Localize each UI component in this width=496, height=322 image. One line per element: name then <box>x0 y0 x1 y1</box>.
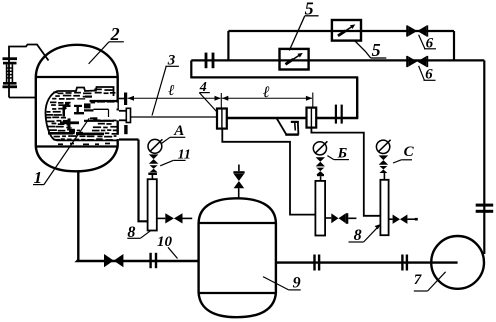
valve 6 (lower) <box>406 56 428 67</box>
svg-text:С: С <box>404 144 415 160</box>
corner joining branch back <box>453 31 455 60</box>
nozzle with flange (upper, pressure tap) <box>119 98 124 100</box>
impulse line orifice1 to pot B <box>222 129 315 215</box>
manometer B (Cyrillic Б) <box>313 142 326 155</box>
line B (lower return of loop) <box>191 76 358 78</box>
internals dark details <box>48 96 104 136</box>
branch riser to upper meter line <box>227 31 229 60</box>
main outlet nozzle to pipe 3 <box>119 108 131 122</box>
svg-text:9: 9 <box>293 275 301 292</box>
valve under manometer C <box>379 155 389 164</box>
U-turn <box>190 60 192 78</box>
pot B drain valve <box>325 217 331 219</box>
dimension line l (vessel to orifice) <box>128 97 221 99</box>
vessel 9 (storage tank) <box>199 198 276 317</box>
flange pair on pipe <box>335 105 337 124</box>
condensate pot (C leg) <box>380 180 388 235</box>
shut-off valve on feed line 10 <box>104 254 123 267</box>
dP flowmeter 5 (lower box) <box>280 49 309 70</box>
orifice device 4 (first) <box>217 109 227 129</box>
pump 7 <box>431 236 484 289</box>
flange pairs on suction line <box>313 255 315 271</box>
svg-text:10: 10 <box>157 234 173 250</box>
drain from vessel 2 <box>77 171 198 262</box>
flange pair on downcomer <box>476 204 494 207</box>
pot C drain valve <box>389 218 393 220</box>
svg-text:2: 2 <box>110 24 120 44</box>
orifice device 4 (second) <box>307 108 317 128</box>
line A (through meters) <box>191 59 484 61</box>
condensate pot 8 (second, B) <box>315 181 325 236</box>
flange pair on line A <box>205 53 208 69</box>
valve under manometer B <box>316 157 325 166</box>
pipe section 3 <box>131 116 218 118</box>
sight glass level gauge on vessel 2 <box>9 45 49 98</box>
manometer A <box>148 139 162 153</box>
condensate pot 8 (first) <box>148 179 157 230</box>
suction line from vessel 9 to pump <box>276 261 458 263</box>
svg-text:5: 5 <box>372 40 381 60</box>
thermometer pocket on pipe <box>277 119 299 135</box>
lower nozzle to condensate pot 8 <box>124 125 127 134</box>
svg-text:ℓ: ℓ <box>168 83 174 99</box>
impulse line orifice2 to pot C <box>311 128 380 216</box>
valve 6 (upper) <box>406 25 428 36</box>
vessel 2 (separator with dome) <box>36 45 118 172</box>
flange pair on bottom line <box>149 253 151 268</box>
line vessel to pot 8 <box>139 140 148 222</box>
vent valve on vessel 9 <box>238 188 240 198</box>
valve 11 under manometer A <box>149 154 159 163</box>
measuring pipe between orifices <box>227 117 307 119</box>
item 1 internals: float bulb with liquid dashes <box>47 89 117 146</box>
internals white core <box>66 100 90 132</box>
dimension line l (orifice to orifice) <box>222 97 312 99</box>
svg-text:7: 7 <box>414 272 422 288</box>
upper meter line <box>228 30 454 32</box>
pot 8 drain valve <box>157 217 166 219</box>
manometer C <box>376 140 389 153</box>
dP flowmeter 5 (upper box) <box>332 20 361 41</box>
riser from pipe to meter loop <box>356 77 358 118</box>
pipe after orifice 2 <box>316 117 358 119</box>
svg-text:1: 1 <box>34 168 43 187</box>
item 1 bulb outline <box>45 87 117 140</box>
svg-text:ℓ: ℓ <box>262 84 270 101</box>
right downcomer to pump <box>483 60 485 254</box>
level gauge flanges and glass <box>3 57 18 88</box>
